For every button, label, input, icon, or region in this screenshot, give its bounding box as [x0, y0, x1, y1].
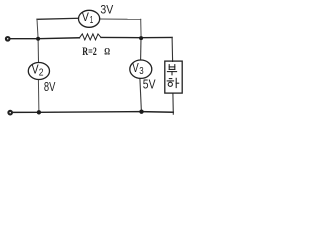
svg-text:3V: 3V — [100, 3, 113, 17]
svg-text:2: 2 — [39, 68, 44, 79]
svg-text:5V: 5V — [143, 77, 156, 92]
svg-text:1: 1 — [90, 15, 94, 26]
svg-text:3: 3 — [139, 66, 144, 77]
svg-text:R=2: R=2 — [82, 44, 97, 58]
svg-text:8V: 8V — [44, 80, 56, 94]
svg-text:Ω: Ω — [104, 48, 110, 58]
svg-text:V: V — [82, 10, 89, 24]
